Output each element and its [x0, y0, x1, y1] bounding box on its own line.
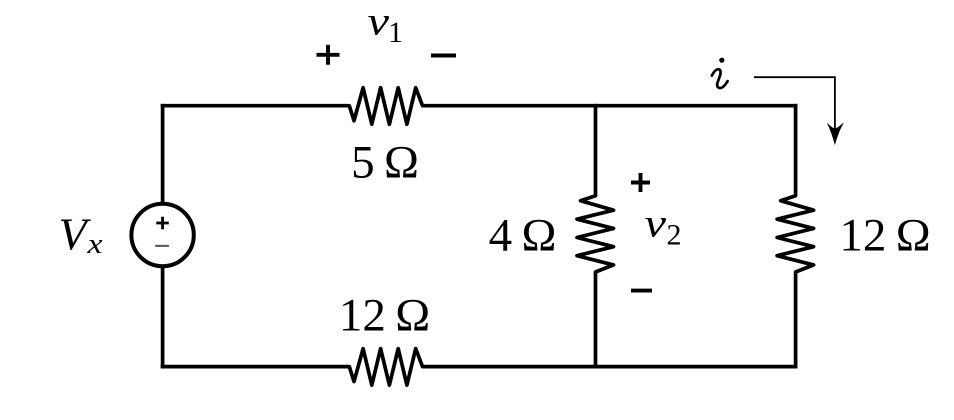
svg-text:v: v — [368, 0, 390, 44]
svg-text:v: v — [645, 200, 667, 245]
svg-text:x: x — [86, 228, 102, 260]
svg-text:2: 2 — [667, 218, 682, 251]
svg-text:1: 1 — [388, 16, 403, 49]
svg-text:12 Ω: 12 Ω — [839, 209, 930, 261]
svg-text:5 Ω: 5 Ω — [351, 136, 419, 188]
svg-text:4 Ω: 4 Ω — [489, 209, 557, 261]
svg-text:12 Ω: 12 Ω — [339, 289, 430, 341]
